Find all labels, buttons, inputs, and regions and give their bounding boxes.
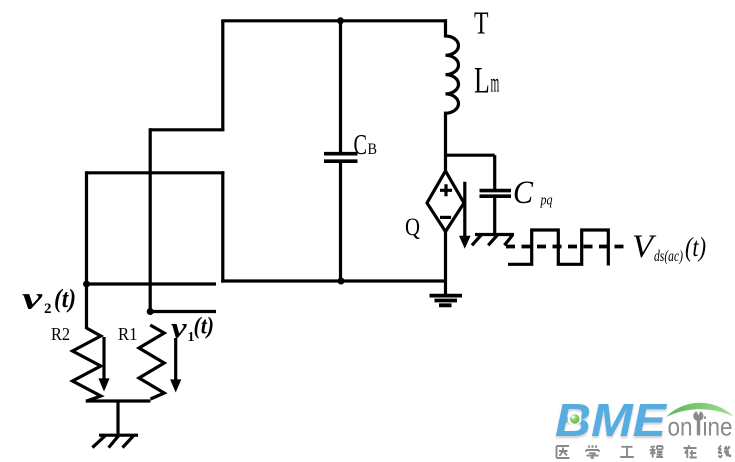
svg-text:2: 2: [44, 301, 52, 317]
svg-text:T: T: [474, 5, 489, 41]
char xian: [718, 446, 730, 459]
watermark logo BME online: [555, 394, 734, 446]
wire left vertical upper segment: [221, 21, 224, 130]
svg-text:v: v: [22, 280, 43, 316]
capacitor CB top lead: [339, 21, 342, 152]
svg-text:B: B: [368, 141, 378, 158]
chassis ground at Cpq: [472, 235, 514, 246]
logo hexagon nut: [568, 411, 582, 426]
wire left vertical lower segment: [221, 171, 224, 282]
svg-text:ine: ine: [703, 412, 733, 442]
current arrow v1: [174, 338, 177, 381]
wire R2 column vertical: [85, 171, 88, 329]
svg-text:(t): (t): [54, 284, 76, 313]
square waveform: [508, 230, 608, 266]
current arrow v2: [102, 337, 105, 380]
ground symbol: [430, 296, 463, 306]
char xue: [586, 445, 599, 458]
node v2 junction dot: [83, 281, 90, 288]
wire resistor bottoms: [86, 399, 151, 402]
wire bottom rail: [221, 279, 447, 282]
wire horizontal branch to R1 column: [150, 128, 224, 131]
svg-text:on: on: [668, 412, 693, 442]
plus sign: [440, 184, 452, 196]
svg-text:Q: Q: [405, 214, 420, 241]
svg-text:R1: R1: [118, 324, 138, 344]
wire horizontal branch to R2 column: [87, 171, 225, 174]
current arrow beside source: [463, 182, 466, 239]
svg-text:m: m: [491, 68, 500, 98]
node junction dot CB top: [337, 17, 344, 24]
char gong: [620, 447, 634, 457]
resistor R2: [73, 328, 101, 401]
char yi: [557, 446, 570, 458]
wire source to ground: [444, 232, 447, 296]
wire v2 open terminal: [87, 282, 217, 285]
svg-text:L: L: [474, 61, 490, 102]
svg-text:(t): (t): [685, 232, 706, 262]
minus sign: [440, 216, 451, 219]
svg-text:(t): (t): [194, 314, 215, 340]
capacitor Cpq bottom lead: [493, 198, 496, 235]
resistor R1: [139, 325, 164, 399]
node v1 junction dot: [147, 308, 154, 315]
chassis ground bottom: [92, 435, 138, 447]
wire v1 open terminal: [150, 310, 216, 313]
node junction dot CB bottom: [338, 278, 345, 285]
svg-text:R2: R2: [51, 324, 70, 344]
svg-text:C: C: [513, 175, 534, 211]
char zai: [684, 445, 697, 458]
wire drain node horizontal to Cpq: [446, 154, 495, 157]
logo green swoosh: [666, 403, 734, 417]
logo wrench: [697, 418, 700, 435]
capacitor Cpq plates: [480, 189, 512, 193]
wire top rail: [221, 19, 447, 22]
logo green ball: [570, 414, 580, 424]
capacitor CB plates: [324, 152, 358, 156]
watermark Chinese caption: [557, 445, 731, 458]
char cheng: [650, 446, 663, 458]
wire R1 column vertical: [149, 128, 152, 311]
capacitor Cpq top lead: [493, 155, 496, 189]
dashed zero axis line: [506, 245, 629, 249]
svg-text:C: C: [354, 130, 368, 161]
transformer T magnetizing inductor Lm: [446, 19, 459, 171]
wire ground stub: [116, 401, 119, 435]
svg-text:v: v: [171, 312, 187, 345]
svg-text:ds(ac): ds(ac): [654, 248, 683, 265]
svg-text:pq: pq: [540, 193, 553, 209]
capacitor CB bottom lead: [339, 163, 342, 281]
dependent source Q diamond: [427, 171, 464, 232]
